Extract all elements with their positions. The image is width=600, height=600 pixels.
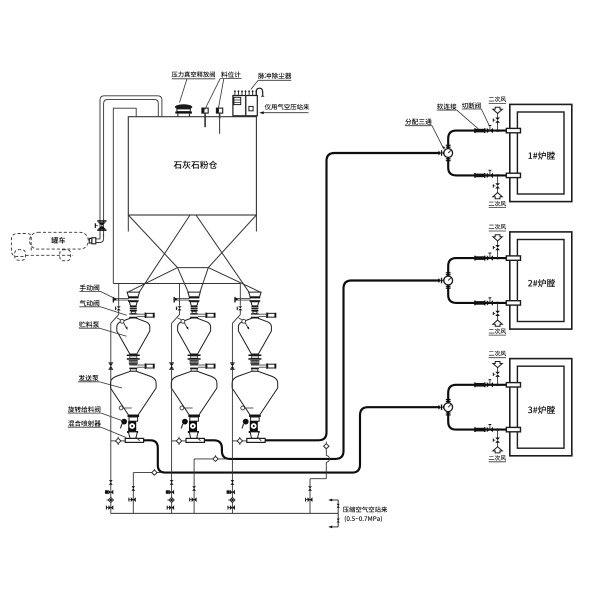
cross fitting upper (train 1) xyxy=(129,313,137,318)
aux drop valve group (train 1) xyxy=(109,480,113,482)
upper side branch with blind flange (train 2) xyxy=(198,313,205,315)
dust collector pulse-jet comb xyxy=(234,92,236,96)
wire: aux air line vertical (train 1) xyxy=(110,323,112,513)
wire: secondary air line lower (furnace 1) xyxy=(497,175,499,183)
mixing ejector 混合喷射器 (train 2) xyxy=(186,438,204,442)
neck (train 3) xyxy=(253,311,257,313)
leader line to relief valve xyxy=(172,78,216,80)
pneumatic valve 气动阀 bellows (train 1) xyxy=(130,306,137,307)
wire: booster air line train2 (manifold to bend) xyxy=(193,459,195,514)
chute outlet funnel (train 2) xyxy=(188,292,200,297)
label 气动阀 xyxy=(80,300,100,306)
secondary air valve lower (furnace 3) xyxy=(495,440,500,443)
wire: aeration air header xyxy=(113,283,240,285)
wire: conveying pipe ejector2 -> furnace2 tee xyxy=(204,281,439,459)
tee stub flanges (furnace 3) xyxy=(446,399,451,400)
rotary valve outlet funnel (train 1) xyxy=(128,432,137,439)
wire: lower branch pipe (furnace 1) xyxy=(448,157,506,175)
furnace wall flange blocks (furnace 3) xyxy=(506,383,520,387)
furnace 3 chamber walls xyxy=(510,359,572,456)
label 贮料泵 xyxy=(79,321,99,327)
tee stub flanges (furnace 1) xyxy=(446,145,451,146)
furnace 2 chamber walls xyxy=(510,232,572,329)
cut-off valve 切断阀 lower (furnace 2) xyxy=(487,300,490,305)
sending pump 发送泵 vessel (train 1) xyxy=(111,371,157,415)
wire: aeration drop jog (train 3) xyxy=(239,310,241,314)
small valve on aeration drop (train 2) xyxy=(178,306,182,308)
lower funnel (train 2) xyxy=(190,302,198,306)
label 1#炉膛 xyxy=(528,151,554,159)
sending pump 发送泵 vessel (train 3) xyxy=(232,371,278,415)
mixing ejector 混合喷射器 (train 3) xyxy=(247,438,265,442)
sending pump 发送泵 vessel (train 2) xyxy=(171,371,217,415)
manual valve 手动阀 stub pipe (train 1) xyxy=(114,297,129,299)
label 二次风 lower (furnace 3) xyxy=(489,455,506,460)
label 压缩空气空站来 xyxy=(343,506,387,512)
distribution tee circle (furnace 1) xyxy=(444,149,453,158)
label 2#炉膛 xyxy=(528,279,555,287)
label 仪用气空压站来 xyxy=(265,104,310,110)
leader lines to level gauges xyxy=(220,78,241,80)
secondary air valve lower (furnace 1) xyxy=(495,186,500,189)
aeration nozzle into vessel1 (train 3) xyxy=(242,319,246,323)
secondary air valve upper (furnace 1) xyxy=(495,118,500,121)
cross fitting lower (train 3) xyxy=(251,364,259,369)
silo (limestone powder bunker) body xyxy=(128,117,256,215)
rotary feeder valve 旋转给料阀 (train 3) xyxy=(250,421,258,431)
manual valve 手动阀 (train 1) xyxy=(113,297,114,303)
wire: booster air line riser (manifold to riser bend) xyxy=(309,479,311,514)
wire: aux air line vertical (train 2) xyxy=(171,323,173,513)
sight glass on cone (train 2) xyxy=(180,406,184,410)
junction dot upper (furnace 1) xyxy=(496,129,499,132)
wire: secondary air line lower (furnace 2) xyxy=(497,303,499,311)
valve on aux line (train 1) xyxy=(109,362,114,364)
check valve at ejector inlet (train 1) xyxy=(116,438,121,443)
check valve booster 1 xyxy=(152,470,157,475)
small valve on aeration drop (train 3) xyxy=(238,306,242,308)
leader 旋转给料阀 xyxy=(68,412,102,414)
secondary air arrow upper (furnace 3) xyxy=(493,362,502,368)
compressed air inlet bracket xyxy=(337,500,339,527)
lower funnel (train 3) xyxy=(251,302,259,306)
center chute xyxy=(178,268,189,293)
cross fitting upper (train 2) xyxy=(190,313,198,318)
leader 切断阀 xyxy=(462,108,482,110)
label 切断阀 xyxy=(462,102,481,108)
label 二次风 upper (furnace 1) xyxy=(489,96,506,101)
furnace wall flange blocks (furnace 1) xyxy=(506,128,520,132)
neck2 (train 3) xyxy=(252,369,258,372)
wire: secondary air line upper (furnace 3) xyxy=(497,377,499,385)
wire: conveying pipe ejector1 -> furnace3 tee xyxy=(143,407,438,472)
lower side branch with blind flange (train 1) xyxy=(137,364,144,366)
storage pump 贮料泵 vessel (train 2) xyxy=(178,318,211,354)
label 3#炉膛 xyxy=(528,406,555,414)
check valve booster 2 xyxy=(213,456,218,461)
flexible connection 软连接 upper (furnace 3) xyxy=(474,382,476,387)
label 旋转给料阀 xyxy=(68,406,100,412)
valve on aux line (train 3) xyxy=(230,362,235,364)
upper side branch with blind flange (train 1) xyxy=(137,313,144,315)
label 混合喷射器 xyxy=(68,420,101,426)
small valve on aeration drop (train 1) xyxy=(117,306,121,308)
distribution tee circle (furnace 2) xyxy=(444,276,453,285)
junction dot upper (furnace 3) xyxy=(496,384,499,387)
instrument-air arrow into collector xyxy=(263,112,309,114)
valve on fill pipe (truck unloading valve) xyxy=(97,220,106,222)
secondary air valve lower (furnace 2) xyxy=(495,313,500,316)
flexible connection 软连接 upper (furnace 2) xyxy=(474,256,476,261)
vessel2 outlet flange (train 2) xyxy=(188,415,200,417)
leader 贮料泵 xyxy=(79,327,100,329)
wire: secondary air line upper (furnace 2) xyxy=(497,250,499,258)
sight glass on cone (train 1) xyxy=(119,406,123,410)
label 分配三通 xyxy=(405,119,431,125)
neck2 (train 2) xyxy=(191,369,197,372)
neck2 (train 1) xyxy=(130,369,136,372)
pneumatic valve 气动阀 bellows (train 2) xyxy=(191,306,198,307)
leader 发送泵 xyxy=(78,381,99,383)
secondary air arrow upper (furnace 2) xyxy=(493,235,502,241)
lower funnel (train 1) xyxy=(129,302,137,306)
manual valve 手动阀 (train 2) xyxy=(174,297,175,303)
pulse dust collector 脉冲除尘器 body xyxy=(233,96,257,116)
cross fitting lower (train 2) xyxy=(190,364,198,369)
funnel flanges (train 1) xyxy=(128,297,139,299)
truck label 罐车 xyxy=(51,237,65,244)
manual valve 手动阀 (train 3) xyxy=(234,297,235,303)
funnel flanges (train 3) xyxy=(250,297,261,299)
vessel1 bottom flanges (train 2) xyxy=(188,355,201,357)
wire: aeration drop from header (train 2) xyxy=(179,284,181,306)
chute outlet funnel (train 1) xyxy=(127,292,139,297)
wire: secondary air line lower (furnace 3) xyxy=(497,430,499,438)
secondary air valve upper (furnace 2) xyxy=(495,245,500,248)
wire: upper branch pipe (furnace 3) xyxy=(448,385,506,403)
upper side branch with blind flange (train 3) xyxy=(259,313,266,315)
label 二次风 upper (furnace 2) xyxy=(489,224,506,229)
booster drop valve group 3 xyxy=(308,486,312,488)
booster drop valve group 1 xyxy=(131,486,135,488)
wire: aeration drop from header (train 1) xyxy=(118,284,120,306)
lower side branch with blind flange (train 2) xyxy=(198,364,205,366)
cut-off valve 切断阀 lower (furnace 1) xyxy=(487,173,490,178)
wire: booster air line train1 (manifold to bend) xyxy=(132,473,134,514)
junction dot lower (furnace 3) xyxy=(496,428,499,431)
tank truck 罐车 (dashed outline) xyxy=(30,232,89,249)
pneumatic valve bellows lower (train 3) xyxy=(250,360,259,361)
wire: tank-truck fill pipe (double line) xyxy=(100,96,162,237)
sight glass on cone (train 3) xyxy=(241,406,245,410)
manual valve 手动阀 stub pipe (train 3) xyxy=(236,297,251,299)
vessel1 bottom flanges (train 3) xyxy=(248,355,261,357)
ejector air feed line (train 1) xyxy=(111,440,125,442)
wire: aeration drop jog (train 1) xyxy=(118,310,120,314)
label 料位计 xyxy=(221,71,240,77)
dust collector outlet elbow xyxy=(256,88,262,96)
label 发送泵 xyxy=(79,375,99,381)
aux drop valve group (train 2) xyxy=(170,480,174,482)
flexible connection 软连接 lower (furnace 1) xyxy=(474,173,476,178)
manual valve 手动阀 stub pipe (train 2) xyxy=(175,297,190,299)
label 二次风 upper (furnace 3) xyxy=(489,351,506,356)
neck (train 2) xyxy=(192,311,196,313)
distribution tee circle (furnace 3) xyxy=(444,403,453,412)
silo skirt walls xyxy=(127,215,129,232)
secondary air arrow lower (furnace 3) xyxy=(493,447,502,453)
ejector air feed line (train 3) xyxy=(232,440,246,442)
label 手动阀 xyxy=(80,284,100,290)
secondary air valve upper (furnace 3) xyxy=(495,372,500,375)
lower side branch with blind flange (train 3) xyxy=(259,364,266,366)
rotary feeder valve 旋转给料阀 (train 2) xyxy=(189,421,197,431)
check valve booster 3 xyxy=(324,444,329,449)
wire: upper branch pipe (furnace 1) xyxy=(448,131,506,149)
mixing ejector 混合喷射器 (train 1) xyxy=(125,438,143,442)
wire: upper branch pipe (furnace 2) xyxy=(448,258,506,276)
flexible connection 软连接 lower (furnace 3) xyxy=(474,427,476,432)
label 二次风 lower (furnace 2) xyxy=(489,328,506,333)
distribution tee 分配三通 inlet connector (furnace 1) xyxy=(439,151,442,156)
wire: silo aeration pipe (header riser over roof) xyxy=(113,108,136,283)
label 脉冲除尘器 xyxy=(258,73,291,79)
silo hopper cone xyxy=(128,215,177,268)
right chute xyxy=(208,268,260,293)
check valve at ejector inlet (train 2) xyxy=(176,438,181,443)
neck (train 1) xyxy=(131,311,135,313)
furnace 1 chamber walls xyxy=(510,104,572,201)
label 二次风 lower (furnace 1) xyxy=(489,201,506,206)
leader 软连接 xyxy=(437,109,457,111)
flexible connection 软连接 lower (furnace 2) xyxy=(474,301,476,306)
label (0.5~0.7MPa) xyxy=(345,516,382,522)
rotary feeder valve 旋转给料阀 (train 1) xyxy=(128,421,136,431)
valve on aux line (train 2) xyxy=(169,362,174,364)
wire: aeration drop from header (train 3) xyxy=(239,284,241,306)
wire: lower branch pipe (furnace 3) xyxy=(448,412,506,430)
pneumatic valve bellows lower (train 1) xyxy=(129,360,138,361)
level gauge 2 (料位计) xyxy=(216,108,222,113)
truck coupling fitting xyxy=(89,238,92,243)
silo label 石灰石粉仓 xyxy=(174,161,218,169)
furnace wall flange blocks (furnace 2) xyxy=(506,256,520,260)
booster drop valve group 2 xyxy=(192,486,196,488)
leader line to dust collector xyxy=(258,79,291,81)
vessel1 bottom flanges (train 1) xyxy=(127,355,140,357)
vessel2 outlet flange (train 1) xyxy=(128,415,140,417)
storage pump 贮料泵 vessel (train 3) xyxy=(238,318,271,354)
leader 气动阀 xyxy=(79,306,100,308)
wire: aux air line vertical (train 3) xyxy=(231,323,233,513)
cut-off valve 切断阀 upper (furnace 3) xyxy=(487,382,490,387)
secondary air arrow lower (furnace 2) xyxy=(493,320,502,326)
wire: fill pipe elbow to truck coupling xyxy=(96,234,100,239)
tee stub flanges (furnace 2) xyxy=(446,272,451,273)
leader 分配三通 xyxy=(405,125,432,127)
cross fitting lower (train 1) xyxy=(129,364,137,369)
flexible connection 软连接 upper (furnace 1) xyxy=(474,128,476,133)
check valve at ejector inlet (train 3) xyxy=(237,438,242,443)
leader 手动阀 xyxy=(79,290,100,292)
left chute xyxy=(128,268,178,293)
label 软连接 xyxy=(437,103,456,109)
aeration nozzle into vessel1 (train 2) xyxy=(181,319,185,323)
vessel2 outlet flange (train 3) xyxy=(249,415,261,417)
junction dot lower (furnace 2) xyxy=(496,302,499,305)
wire: compressed air manifold xyxy=(111,512,338,514)
aux drop valve group (train 3) xyxy=(231,480,235,482)
junction dot lower (furnace 1) xyxy=(496,174,499,177)
pneumatic valve 气动阀 bellows (train 3) xyxy=(251,306,258,307)
chute outlet funnel (train 3) xyxy=(249,292,261,297)
junction dot upper (furnace 2) xyxy=(496,257,499,260)
secondary air arrow lower (furnace 1) xyxy=(493,193,502,199)
funnel flanges (train 2) xyxy=(189,297,200,299)
storage pump 贮料泵 vessel (train 1) xyxy=(117,318,150,354)
level gauge 1 (料位计) xyxy=(202,108,208,113)
wire: secondary air line upper (furnace 1) xyxy=(497,123,499,131)
wire: lower branch pipe (furnace 2) xyxy=(448,285,506,303)
pressure vacuum relief valve 压力真空释放阀 xyxy=(175,104,192,109)
label 压力真空释放阀 xyxy=(172,71,215,77)
wire: conveying pipe ejector3 -> furnace1 tee xyxy=(265,153,439,440)
ejector air feed line (train 2) xyxy=(172,440,186,442)
cut-off valve 切断阀 lower (furnace 3) xyxy=(487,427,490,432)
wire: aeration drop jog (train 2) xyxy=(179,310,181,314)
secondary air arrow upper (furnace 1) xyxy=(493,107,502,113)
distribution tee 分配三通 inlet connector (furnace 3) xyxy=(439,405,442,410)
cut-off valve 切断阀 upper (furnace 2) xyxy=(487,255,490,260)
rotary valve outlet funnel (train 2) xyxy=(189,432,198,439)
aeration nozzle into vessel1 (train 1) xyxy=(120,319,124,323)
cut-off valve 切断阀 upper (furnace 1) xyxy=(487,128,490,133)
distribution tee 分配三通 inlet connector (furnace 2) xyxy=(439,278,442,283)
leader 混合喷射器 xyxy=(68,426,102,428)
rotary valve outlet funnel (train 3) xyxy=(250,432,259,439)
pneumatic valve bellows lower (train 2) xyxy=(190,360,199,361)
cross fitting upper (train 3) xyxy=(251,313,259,318)
